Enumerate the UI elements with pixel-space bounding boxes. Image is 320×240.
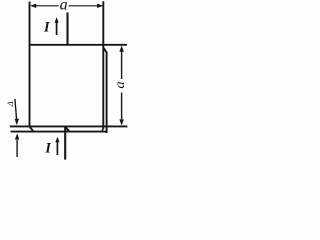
svg-text:Δ: Δ <box>5 101 15 107</box>
svg-text:I: I <box>44 141 51 157</box>
svg-text:I: I <box>43 20 50 36</box>
svg-text:a: a <box>113 82 128 89</box>
svg-text:a: a <box>60 0 68 13</box>
